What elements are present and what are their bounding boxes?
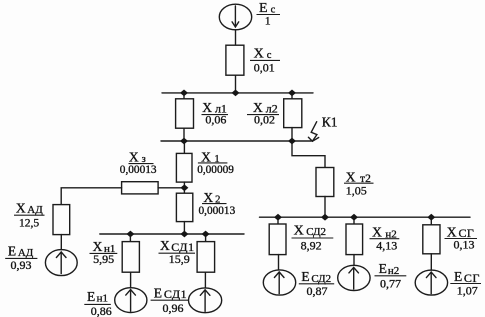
svg-text:0,01: 0,01 bbox=[254, 60, 275, 74]
resistor Xn1 bbox=[122, 242, 139, 273]
svg-text:15,9: 15,9 bbox=[169, 252, 190, 266]
source EAD bbox=[45, 250, 77, 276]
svg-text:12,5: 12,5 bbox=[19, 217, 39, 229]
label Xn2/4,13 bbox=[370, 225, 400, 253]
wire top bus to XL1 bbox=[183, 93, 185, 99]
wire right bus to XSD2 bbox=[277, 217, 279, 224]
source ESD2 bbox=[263, 270, 295, 295]
node lowleft bus / XSD1 bbox=[202, 231, 210, 238]
svg-text:0,77: 0,77 bbox=[380, 276, 401, 290]
svg-text:1,05: 1,05 bbox=[346, 183, 367, 197]
label Xn1/5,95 bbox=[90, 239, 118, 266]
resistor X3 bbox=[122, 182, 159, 194]
node right bus / Xt2 bbox=[321, 214, 329, 221]
svg-text:5,95: 5,95 bbox=[93, 252, 114, 266]
wire XSD1 to ESD1 bbox=[204, 272, 206, 288]
resistor Xt2 bbox=[316, 168, 334, 197]
wire X1 to X2 node bbox=[183, 182, 185, 193]
right bus bbox=[260, 216, 471, 218]
wire Xn2 to En2 bbox=[353, 255, 355, 266]
wire right bus to XSG bbox=[430, 217, 432, 225]
source En2 bbox=[338, 265, 370, 290]
label EAD/0,93 bbox=[5, 243, 37, 271]
resistor XL2 bbox=[284, 99, 302, 128]
label XSD1/15,9 bbox=[159, 238, 196, 266]
wire lower bus to X1 bbox=[183, 141, 185, 153]
svg-text:0,00013: 0,00013 bbox=[120, 164, 157, 176]
lowleft bus bbox=[100, 233, 244, 235]
svg-text:0,00013: 0,00013 bbox=[199, 205, 236, 217]
wire lower bus to Xt2 bbox=[292, 141, 325, 168]
svg-text:К1: К1 bbox=[322, 115, 338, 130]
resistor Xn2 bbox=[346, 224, 363, 255]
wire Xt2 to right bus bbox=[324, 197, 326, 218]
resistor XSD2 bbox=[269, 224, 286, 255]
wire XL2 to lower bus bbox=[291, 128, 293, 141]
source ESD1 bbox=[189, 288, 222, 313]
label X1/0,00009 bbox=[197, 149, 234, 176]
wire X3 to node A bbox=[158, 187, 184, 189]
wire right bus to Xn2 bbox=[353, 217, 355, 224]
wire X2 to lowleft bus bbox=[183, 222, 185, 234]
wire XSG to ESG bbox=[430, 254, 432, 270]
top bus bbox=[162, 92, 313, 94]
wire Xn1 to En1 bbox=[130, 272, 132, 288]
resistor XSD1 bbox=[197, 242, 215, 273]
svg-text:ЕСД1: ЕСД1 bbox=[154, 285, 188, 301]
label En1/0,86 bbox=[84, 289, 111, 317]
source En1 bbox=[115, 288, 147, 313]
node top bus / Xc bbox=[232, 90, 240, 97]
label Xt2/1,05 bbox=[344, 169, 374, 197]
wire top bus to XL2 bbox=[291, 93, 293, 99]
resistor X2 bbox=[176, 193, 192, 221]
node lower bus / XL1-X1 bbox=[180, 138, 188, 145]
label Xc/0,01 bbox=[250, 46, 280, 74]
wire XAD to EAD bbox=[60, 235, 62, 250]
node A X1-X2-X3 bbox=[180, 184, 188, 191]
label XSD2/8,92 bbox=[292, 223, 334, 252]
label XSG/0,13 bbox=[445, 224, 478, 251]
wire lowleft bus to XSD1 bbox=[205, 234, 207, 242]
label XAD/12,5 bbox=[14, 200, 45, 229]
svg-text:0,93: 0,93 bbox=[11, 258, 32, 272]
svg-text:0,06: 0,06 bbox=[205, 112, 226, 126]
node right bus / Xn2 bbox=[350, 214, 358, 221]
svg-text:0,87: 0,87 bbox=[307, 284, 328, 298]
label X2/0,00013 bbox=[199, 190, 236, 217]
resistor XAD bbox=[53, 205, 70, 235]
label ESD1/0,96 bbox=[151, 285, 189, 315]
svg-text:1,07: 1,07 bbox=[457, 283, 478, 297]
node right bus / XSG bbox=[427, 214, 435, 221]
label En2/0,77 bbox=[375, 261, 407, 290]
source Ec bbox=[219, 4, 251, 30]
svg-text:4,13: 4,13 bbox=[376, 238, 397, 252]
svg-text:1: 1 bbox=[265, 16, 271, 28]
node right bus / XSD2 bbox=[274, 214, 282, 221]
node lowleft bus / X2 bbox=[180, 231, 188, 238]
wire XSD2 to ESD2 bbox=[278, 255, 280, 270]
svg-text:0,96: 0,96 bbox=[163, 301, 184, 315]
wire Xc to top bus bbox=[235, 75, 237, 93]
wire lowleft bus to Xn1 bbox=[129, 234, 131, 242]
svg-text:0,13: 0,13 bbox=[454, 238, 475, 252]
label ESG/1,07 bbox=[450, 269, 481, 297]
label ESD2/0,87 bbox=[299, 269, 334, 298]
lower bus bbox=[161, 140, 311, 142]
wire XL1 to lower bus bbox=[183, 128, 185, 141]
source ESG bbox=[415, 270, 447, 295]
svg-text:ХСД2: ХСД2 bbox=[294, 223, 326, 238]
fault K1 bolt bbox=[308, 122, 318, 142]
svg-text:0,86: 0,86 bbox=[91, 304, 112, 317]
resistor Xc bbox=[226, 45, 244, 75]
resistor XSG bbox=[423, 225, 440, 254]
wire Ec to Xc bbox=[235, 30, 237, 45]
wire X3 to XAD bbox=[61, 188, 121, 205]
node top bus / XL2 bbox=[288, 90, 296, 97]
label XL1/0,06 bbox=[202, 100, 229, 127]
node top bus / XL1 bbox=[180, 90, 188, 97]
node lower bus / XL2 bbox=[288, 138, 296, 145]
svg-text:0,02: 0,02 bbox=[254, 112, 275, 126]
resistor X1 bbox=[176, 153, 192, 182]
node lowleft bus / Xn1 bbox=[126, 231, 134, 238]
label XL2/0,02 bbox=[247, 100, 279, 127]
svg-text:8,92: 8,92 bbox=[301, 238, 322, 252]
label X3/0,00013 bbox=[120, 149, 157, 176]
resistor XL1 bbox=[176, 99, 194, 128]
label Ec/1 bbox=[257, 1, 281, 28]
svg-text:0,00009: 0,00009 bbox=[197, 164, 234, 176]
